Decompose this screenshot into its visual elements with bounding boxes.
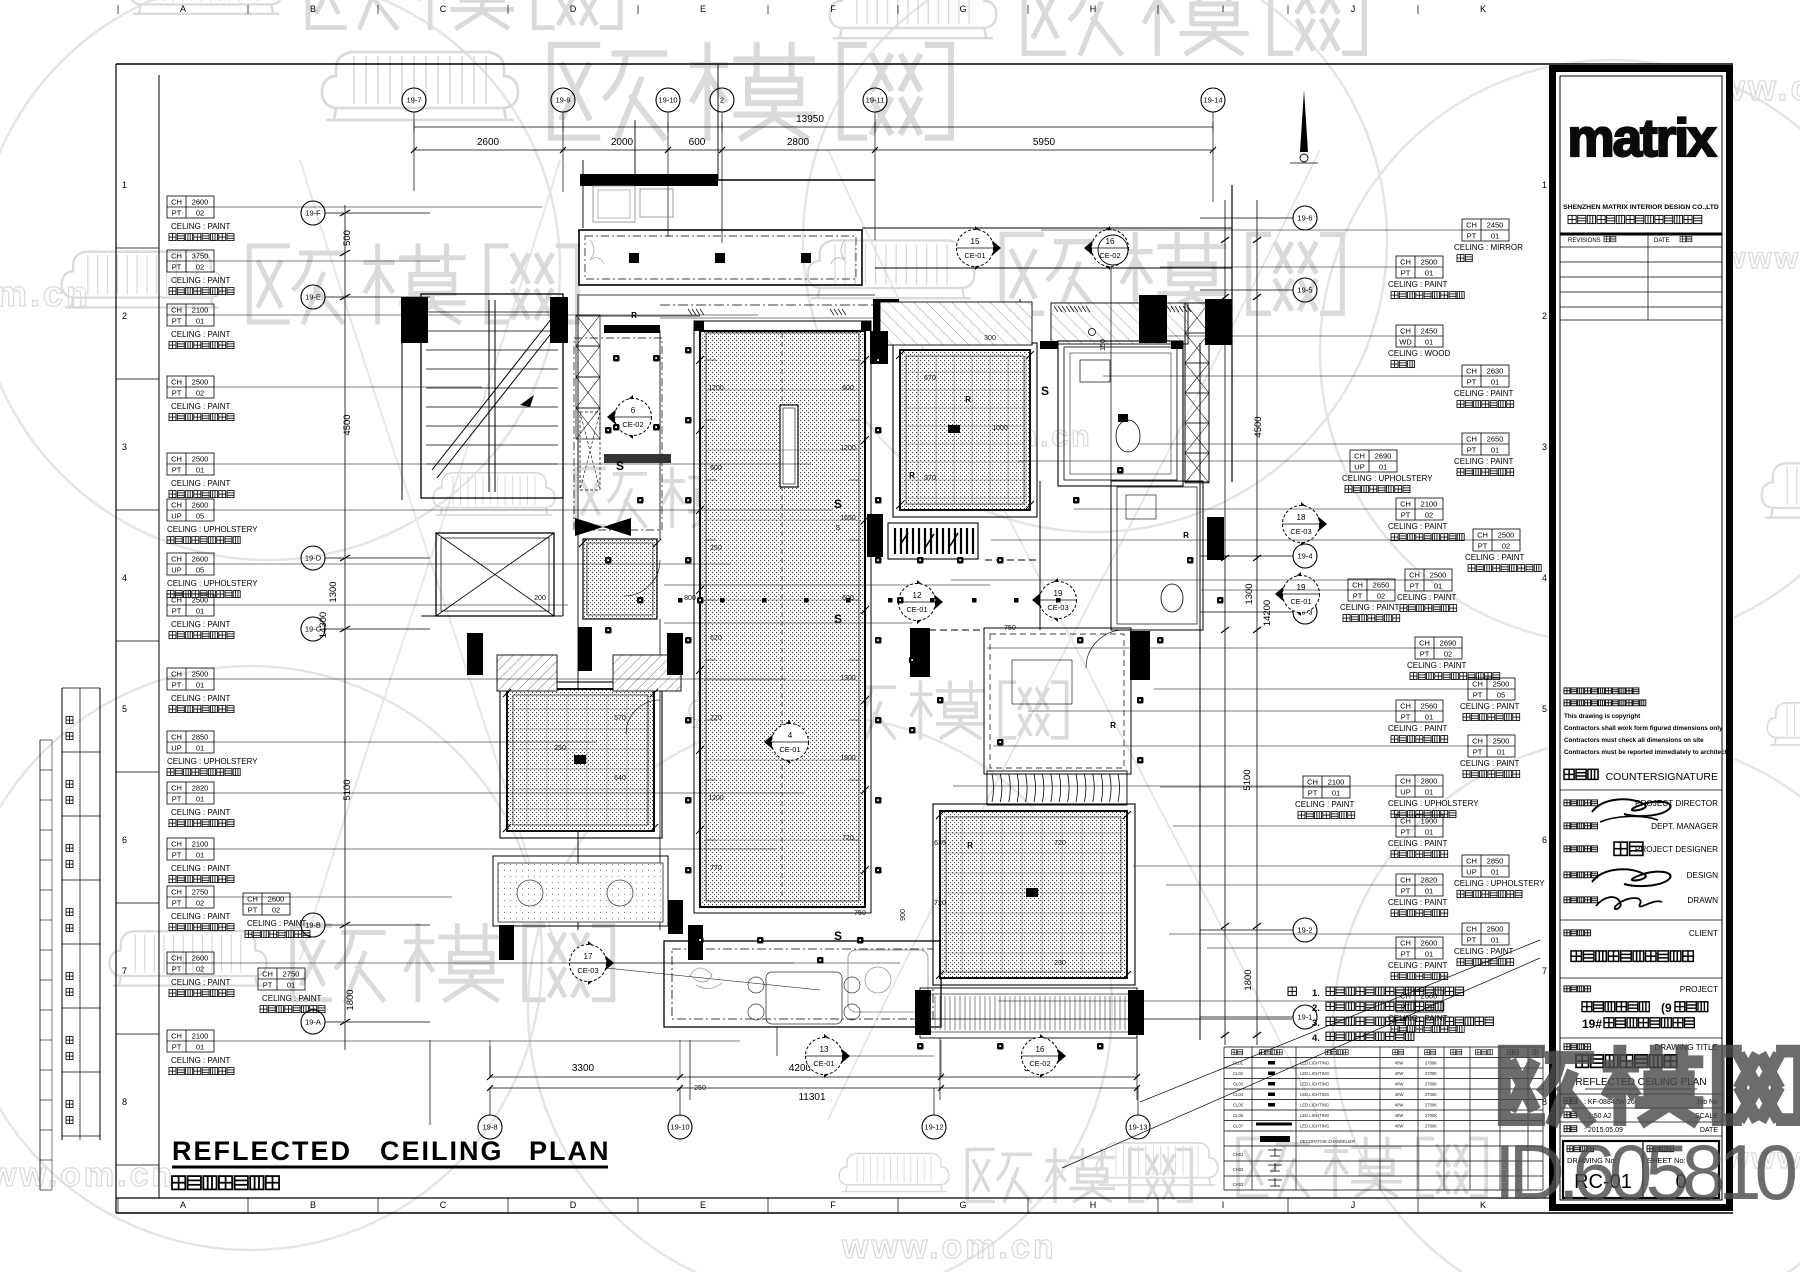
svg-text:CELING : PAINT: CELING : PAINT: [171, 222, 231, 231]
svg-text:19: 19: [1054, 589, 1063, 598]
svg-text:720: 720: [842, 835, 854, 842]
svg-text:19-13: 19-13: [1128, 1123, 1147, 1132]
svg-text:Contractors must check all dim: Contractors must check all dimensions on…: [1564, 737, 1704, 744]
svg-text:CH: CH: [1477, 531, 1488, 540]
svg-text:2700K: 2700K: [1425, 1103, 1437, 1108]
svg-text:DRAWN: DRAWN: [1687, 896, 1718, 905]
svg-text:CH: CH: [1400, 876, 1411, 885]
svg-text:15: 15: [971, 237, 980, 246]
svg-text:01: 01: [287, 981, 295, 990]
svg-text:PT: PT: [172, 681, 182, 690]
svg-text:CELING : PAINT: CELING : PAINT: [1454, 389, 1514, 398]
svg-text:2500: 2500: [192, 670, 209, 679]
svg-text:PLAN: PLAN: [529, 1136, 611, 1166]
svg-text:2560: 2560: [1421, 702, 1438, 711]
svg-text:www.om.cn: www.om.cn: [841, 1228, 1057, 1266]
svg-text:CELING : PAINT: CELING : PAINT: [171, 402, 231, 411]
svg-text:600: 600: [842, 595, 854, 602]
svg-text:E: E: [700, 4, 706, 14]
svg-text:CELING : MIRROR: CELING : MIRROR: [1454, 243, 1523, 252]
svg-text:CELING : UPHOLSTERY: CELING : UPHOLSTERY: [167, 525, 258, 534]
svg-text:CELING : PAINT: CELING : PAINT: [247, 919, 307, 928]
svg-text:F: F: [830, 1200, 836, 1210]
svg-text:LED LIGHTING: LED LIGHTING: [1300, 1061, 1329, 1066]
svg-text:G: G: [959, 4, 966, 14]
svg-text:01: 01: [196, 317, 204, 326]
svg-text:01: 01: [1497, 748, 1505, 757]
svg-text:UP: UP: [171, 744, 181, 753]
svg-text:250: 250: [554, 745, 566, 752]
svg-text:B: B: [310, 4, 316, 14]
svg-text:CH02: CH02: [1233, 1167, 1244, 1172]
svg-text:CH: CH: [171, 501, 182, 510]
svg-text:S: S: [834, 929, 842, 943]
svg-text:CEILING: CEILING: [380, 1136, 504, 1166]
svg-text:02: 02: [1502, 542, 1510, 551]
svg-text:CH: CH: [171, 555, 182, 564]
svg-text:2850: 2850: [1487, 857, 1504, 866]
svg-text:2820: 2820: [192, 784, 209, 793]
svg-text:19-5: 19-5: [1297, 286, 1312, 295]
svg-text:5: 5: [122, 704, 127, 714]
svg-text:01: 01: [1491, 232, 1499, 241]
svg-text:D: D: [570, 4, 577, 14]
svg-text:3: 3: [1542, 442, 1547, 452]
svg-text:2700K: 2700K: [1425, 1082, 1437, 1087]
svg-text:1800: 1800: [1243, 969, 1254, 990]
svg-text:19-11: 19-11: [866, 96, 885, 105]
svg-text:CH: CH: [171, 840, 182, 849]
svg-text:3.: 3.: [1312, 1018, 1320, 1029]
svg-text:CELING : PAINT: CELING : PAINT: [171, 330, 231, 339]
svg-text:B: B: [310, 1200, 316, 1210]
svg-text:01: 01: [196, 795, 204, 804]
svg-text:CH: CH: [171, 670, 182, 679]
svg-text:CELING : PAINT: CELING : PAINT: [171, 912, 231, 921]
svg-text:F: F: [830, 4, 836, 14]
svg-text:PT: PT: [1401, 887, 1411, 896]
svg-text:1.: 1.: [1312, 988, 1320, 999]
svg-text:PT: PT: [172, 1043, 182, 1052]
svg-text:DATE: DATE: [1654, 238, 1670, 244]
svg-text:05: 05: [1497, 691, 1505, 700]
svg-text:720: 720: [710, 715, 722, 722]
svg-text:PT: PT: [172, 795, 182, 804]
svg-text:PT: PT: [172, 466, 182, 475]
svg-text:R: R: [967, 841, 973, 850]
svg-text:4.: 4.: [1312, 1033, 1320, 1044]
svg-text:02: 02: [1377, 592, 1385, 601]
svg-text:2: 2: [1542, 311, 1547, 321]
svg-text:3750: 3750: [192, 252, 209, 261]
svg-text:2450: 2450: [1421, 327, 1438, 336]
svg-text:18: 18: [1297, 513, 1306, 522]
svg-text:13: 13: [820, 1045, 829, 1054]
svg-text:2500: 2500: [192, 378, 209, 387]
svg-text:1300: 1300: [328, 581, 339, 602]
svg-text:2500: 2500: [1493, 737, 1510, 746]
svg-text:2750: 2750: [283, 970, 300, 979]
svg-text:2: 2: [122, 311, 127, 321]
svg-text:250: 250: [710, 545, 722, 552]
svg-text:REVISIONS: REVISIONS: [1568, 238, 1601, 244]
svg-text:CH: CH: [1400, 258, 1411, 267]
svg-text:2100: 2100: [192, 840, 209, 849]
svg-text:01: 01: [196, 1043, 204, 1052]
svg-text:2500: 2500: [192, 455, 209, 464]
svg-text:720: 720: [1054, 840, 1066, 847]
svg-text:G: G: [959, 1200, 966, 1210]
svg-text:40W: 40W: [1395, 1071, 1404, 1076]
svg-text:02: 02: [196, 965, 204, 974]
svg-text:19-7: 19-7: [406, 96, 421, 105]
svg-text:40W: 40W: [1395, 1124, 1404, 1129]
svg-text:CH: CH: [1400, 817, 1411, 826]
svg-text:17: 17: [584, 952, 593, 961]
svg-text:2600: 2600: [192, 501, 209, 510]
svg-text:2100: 2100: [192, 306, 209, 315]
svg-text:02: 02: [1425, 511, 1433, 520]
svg-text:12: 12: [913, 591, 922, 600]
svg-text:19-9: 19-9: [555, 96, 570, 105]
svg-text:PT: PT: [248, 906, 258, 915]
svg-text:LED LIGHTING: LED LIGHTING: [1300, 1124, 1329, 1129]
svg-text:1200: 1200: [708, 385, 724, 392]
svg-text:2600: 2600: [192, 954, 209, 963]
svg-text:01: 01: [196, 851, 204, 860]
svg-text:01: 01: [1379, 463, 1387, 472]
svg-text:H: H: [1090, 1200, 1097, 1210]
svg-text:DECORATIVE CHANDELIER: DECORATIVE CHANDELIER: [1300, 1139, 1355, 1144]
svg-text:01: 01: [1425, 887, 1433, 896]
svg-text:300: 300: [984, 335, 996, 342]
svg-text:19-14: 19-14: [1203, 96, 1222, 105]
svg-text:PT: PT: [1401, 511, 1411, 520]
svg-text:CL04: CL04: [1233, 1092, 1244, 1097]
svg-text:LED LIGHTING: LED LIGHTING: [1300, 1071, 1329, 1076]
svg-text:02: 02: [196, 899, 204, 908]
svg-text:CE-02: CE-02: [1099, 251, 1120, 260]
svg-text:CH: CH: [1400, 327, 1411, 336]
svg-text:I: I: [1222, 1200, 1225, 1210]
svg-text:19-E: 19-E: [305, 293, 321, 302]
svg-text:S: S: [836, 525, 841, 532]
svg-text:250: 250: [694, 1085, 706, 1092]
svg-text:CL03: CL03: [1233, 1082, 1244, 1087]
svg-text:LED LIGHTING: LED LIGHTING: [1300, 1113, 1329, 1118]
svg-text:CL05: CL05: [1233, 1103, 1244, 1108]
svg-text:CE-02: CE-02: [1029, 1059, 1050, 1068]
svg-text:2700K: 2700K: [1425, 1061, 1437, 1066]
svg-text:CE-01: CE-01: [813, 1059, 834, 1068]
svg-text:2: 2: [720, 96, 724, 105]
svg-text:CELING : PAINT: CELING : PAINT: [171, 276, 231, 285]
svg-text:900: 900: [900, 909, 907, 921]
svg-text:750: 750: [854, 910, 866, 917]
svg-text:01: 01: [196, 681, 204, 690]
svg-text:19-C: 19-C: [305, 625, 322, 634]
svg-text:5950: 5950: [1033, 137, 1056, 148]
svg-text:19-12: 19-12: [924, 1123, 943, 1132]
svg-text:16: 16: [1036, 1045, 1045, 1054]
svg-text:Contractors must be reported i: Contractors must be reported immediately…: [1564, 749, 1731, 756]
svg-text:PT: PT: [1473, 691, 1483, 700]
svg-text:2800: 2800: [787, 137, 810, 148]
svg-text:PT: PT: [172, 965, 182, 974]
svg-text:CELING : PAINT: CELING : PAINT: [1465, 553, 1525, 562]
svg-text:2690: 2690: [1440, 639, 1457, 648]
svg-text:2650: 2650: [1487, 435, 1504, 444]
svg-text:H: H: [1090, 4, 1097, 14]
svg-text:LED LIGHTING: LED LIGHTING: [1300, 1103, 1329, 1108]
svg-text:2500: 2500: [192, 596, 209, 605]
svg-text:E: E: [700, 1200, 706, 1210]
svg-text:14200: 14200: [1262, 600, 1273, 626]
svg-text:2100: 2100: [1328, 778, 1345, 787]
svg-text:CH: CH: [1352, 581, 1363, 590]
svg-text:PROJECT DESIGNER: PROJECT DESIGNER: [1635, 845, 1718, 854]
svg-text:2700K: 2700K: [1425, 1092, 1437, 1097]
svg-text:CH: CH: [171, 252, 182, 261]
svg-text:PT: PT: [1467, 446, 1477, 455]
svg-text:CELING : PAINT: CELING : PAINT: [1295, 800, 1355, 809]
svg-text:CELING : PAINT: CELING : PAINT: [1388, 961, 1448, 970]
svg-text:R: R: [965, 395, 971, 404]
svg-text:UP: UP: [171, 512, 181, 521]
svg-text:635: 635: [934, 840, 946, 847]
svg-text:CL07: CL07: [1233, 1124, 1244, 1129]
svg-text:om.cn: om.cn: [0, 273, 91, 314]
svg-text:01: 01: [196, 744, 204, 753]
svg-text:200: 200: [534, 595, 546, 602]
svg-text:CH: CH: [171, 733, 182, 742]
svg-text:R: R: [1183, 531, 1189, 540]
svg-text:19-B: 19-B: [305, 921, 321, 930]
svg-text:S: S: [1041, 384, 1049, 398]
svg-text:WD: WD: [1399, 338, 1412, 347]
svg-text:This drawing is copyright: This drawing is copyright: [1564, 713, 1641, 720]
svg-text:2630: 2630: [1487, 367, 1504, 376]
svg-text:UP: UP: [1354, 463, 1364, 472]
svg-text:PT: PT: [172, 317, 182, 326]
svg-text:02: 02: [196, 389, 204, 398]
svg-text:19-6: 19-6: [1297, 214, 1312, 223]
svg-text:01: 01: [1491, 446, 1499, 455]
svg-text:CH: CH: [1419, 639, 1430, 648]
svg-text:CH: CH: [247, 895, 258, 904]
svg-text:1000: 1000: [992, 425, 1008, 432]
svg-text:PT: PT: [1401, 269, 1411, 278]
svg-text:K: K: [1480, 1200, 1486, 1210]
svg-text:CELING : PAINT: CELING : PAINT: [1454, 457, 1514, 466]
svg-text:CH: CH: [262, 970, 273, 979]
svg-text:CELING : UPHOLSTERY: CELING : UPHOLSTERY: [167, 579, 258, 588]
svg-text:CE-03: CE-03: [577, 966, 598, 975]
svg-text:40W: 40W: [1395, 1061, 1404, 1066]
svg-text:R: R: [1110, 721, 1116, 730]
svg-text:R: R: [909, 471, 915, 480]
svg-text:600: 600: [710, 465, 722, 472]
svg-text:01: 01: [1425, 338, 1433, 347]
svg-text:19-2: 19-2: [1297, 926, 1312, 935]
svg-text:750: 750: [1004, 625, 1016, 632]
svg-text:150: 150: [1100, 339, 1107, 351]
svg-text:PT: PT: [1478, 542, 1488, 551]
svg-text:7: 7: [122, 966, 127, 976]
svg-text:CELING : PAINT: CELING : PAINT: [1388, 839, 1448, 848]
svg-text:2000: 2000: [611, 137, 634, 148]
svg-text:PT: PT: [1467, 936, 1477, 945]
svg-text:1: 1: [122, 180, 127, 190]
svg-text:02: 02: [196, 263, 204, 272]
svg-text:16: 16: [1106, 237, 1115, 246]
svg-text:6: 6: [122, 835, 127, 845]
svg-text:CELING : PAINT: CELING : PAINT: [1388, 724, 1448, 733]
svg-text:CE-01: CE-01: [1290, 597, 1311, 606]
svg-text:1900: 1900: [1421, 817, 1438, 826]
svg-text:CELING : PAINT: CELING : PAINT: [171, 864, 231, 873]
svg-text:2600: 2600: [192, 555, 209, 564]
svg-text:CH: CH: [1466, 925, 1477, 934]
svg-text:4500: 4500: [342, 414, 353, 435]
svg-text:5100: 5100: [1242, 769, 1253, 790]
svg-text:CH: CH: [1400, 777, 1411, 786]
svg-text:02: 02: [272, 906, 280, 915]
svg-text:40W: 40W: [1395, 1113, 1404, 1118]
svg-text:2600: 2600: [192, 198, 209, 207]
svg-text:2.: 2.: [1312, 1003, 1320, 1014]
svg-text:PT: PT: [172, 607, 182, 616]
svg-text:40W: 40W: [1395, 1082, 1404, 1087]
svg-text:770: 770: [710, 865, 722, 872]
svg-text:1800: 1800: [840, 755, 856, 762]
svg-text:PT: PT: [1353, 592, 1363, 601]
svg-text:2100: 2100: [192, 1032, 209, 1041]
svg-text:2700K: 2700K: [1425, 1071, 1437, 1076]
svg-text:PT: PT: [1473, 748, 1483, 757]
svg-text:CH: CH: [171, 1032, 182, 1041]
svg-text:3300: 3300: [572, 1063, 595, 1074]
svg-text:CE-03: CE-03: [1047, 603, 1068, 612]
svg-text:05: 05: [196, 512, 204, 521]
svg-text:CELING : PAINT: CELING : PAINT: [1388, 898, 1448, 907]
svg-text:PT: PT: [172, 209, 182, 218]
svg-text:1200: 1200: [708, 795, 724, 802]
svg-text:CE-01: CE-01: [906, 605, 927, 614]
svg-text:2500: 2500: [1498, 531, 1515, 540]
svg-text:LED LIGHTING: LED LIGHTING: [1300, 1082, 1329, 1087]
svg-text:2820: 2820: [1421, 876, 1438, 885]
svg-text:670: 670: [924, 375, 936, 382]
svg-text:2650: 2650: [1373, 581, 1390, 590]
svg-text:J: J: [1351, 1200, 1356, 1210]
svg-text:PT: PT: [1467, 378, 1477, 387]
svg-text:CH: CH: [1400, 939, 1411, 948]
svg-text:CH: CH: [1466, 435, 1477, 444]
svg-text:PT: PT: [172, 899, 182, 908]
svg-text:CELING : PAINT: CELING : PAINT: [171, 479, 231, 488]
svg-text:K: K: [1480, 4, 1486, 14]
svg-text:CE-01: CE-01: [779, 745, 800, 754]
svg-text:CELING : PAINT: CELING : PAINT: [262, 994, 322, 1003]
svg-text:1300: 1300: [840, 675, 856, 682]
svg-text:1650: 1650: [840, 515, 856, 522]
svg-text:CL02: CL02: [1233, 1071, 1244, 1076]
svg-text:19-4: 19-4: [1297, 552, 1312, 561]
svg-text:LED LIGHTING: LED LIGHTING: [1300, 1092, 1329, 1097]
svg-text:01: 01: [1491, 378, 1499, 387]
svg-text:CELING : PAINT: CELING : PAINT: [1397, 593, 1457, 602]
svg-text:19-A: 19-A: [305, 1018, 321, 1027]
svg-text:PT: PT: [1410, 582, 1420, 591]
svg-text:UP: UP: [1400, 788, 1410, 797]
svg-text:CELING : PAINT: CELING : PAINT: [1407, 661, 1467, 670]
svg-text:CH: CH: [1472, 737, 1483, 746]
svg-text:CH: CH: [1466, 857, 1477, 866]
svg-text:CELING : PAINT: CELING : PAINT: [171, 1056, 231, 1065]
svg-text:COUNTERSIGNATURE: COUNTERSIGNATURE: [1606, 771, 1718, 783]
svg-text:S: S: [616, 459, 624, 473]
svg-text:19-8: 19-8: [482, 1123, 497, 1132]
svg-text:05: 05: [196, 566, 204, 575]
svg-text:1200: 1200: [840, 445, 856, 452]
svg-text:800: 800: [684, 595, 696, 602]
svg-text:A: A: [180, 4, 186, 14]
svg-text:UP: UP: [171, 566, 181, 575]
svg-text:2800: 2800: [1421, 777, 1438, 786]
svg-text:CH: CH: [171, 784, 182, 793]
svg-text:2450: 2450: [1487, 221, 1504, 230]
svg-text:2600: 2600: [268, 895, 285, 904]
svg-text:2500: 2500: [1430, 571, 1447, 580]
svg-text:01: 01: [1434, 582, 1442, 591]
svg-text:CELING : PAINT: CELING : PAINT: [171, 620, 231, 629]
svg-text:CELING : WOOD: CELING : WOOD: [1388, 349, 1450, 358]
svg-text:720: 720: [934, 900, 946, 907]
svg-text:ww.om.cn: ww.om.cn: [0, 1156, 175, 1194]
svg-text:PT: PT: [1401, 828, 1411, 837]
svg-text:J: J: [1351, 4, 1356, 14]
svg-text:8: 8: [122, 1097, 127, 1107]
svg-text:4: 4: [788, 731, 793, 740]
svg-text:CELING : UPHOLSTERY: CELING : UPHOLSTERY: [1388, 799, 1479, 808]
svg-text:6: 6: [1542, 835, 1547, 845]
svg-text:600: 600: [842, 385, 854, 392]
svg-text:CH: CH: [1400, 500, 1411, 509]
svg-text:PT: PT: [1467, 232, 1477, 241]
svg-text:7: 7: [1542, 966, 1547, 976]
svg-text:CE-03: CE-03: [1290, 527, 1311, 536]
svg-text:CH: CH: [1409, 571, 1420, 580]
svg-text:2500: 2500: [1493, 680, 1510, 689]
svg-text:19-10: 19-10: [658, 96, 677, 105]
svg-text:DEPT. MANAGER: DEPT. MANAGER: [1651, 822, 1718, 831]
svg-text:40W: 40W: [1395, 1103, 1404, 1108]
svg-text:CELING : PAINT: CELING : PAINT: [171, 808, 231, 817]
svg-text:PT: PT: [172, 389, 182, 398]
svg-text:620: 620: [710, 635, 722, 642]
svg-text:4500: 4500: [1253, 416, 1264, 437]
svg-text:CELING : UPHOLSTERY: CELING : UPHOLSTERY: [1454, 879, 1545, 888]
svg-text:S: S: [834, 497, 842, 511]
svg-text:CELING : UPHOLSTERY: CELING : UPHOLSTERY: [1342, 474, 1433, 483]
svg-text:CELING : PAINT: CELING : PAINT: [1460, 759, 1520, 768]
svg-text:CH: CH: [1400, 702, 1411, 711]
svg-text:01: 01: [196, 466, 204, 475]
svg-text:01: 01: [1425, 950, 1433, 959]
svg-text:PT: PT: [1401, 950, 1411, 959]
svg-text:2500: 2500: [1487, 925, 1504, 934]
